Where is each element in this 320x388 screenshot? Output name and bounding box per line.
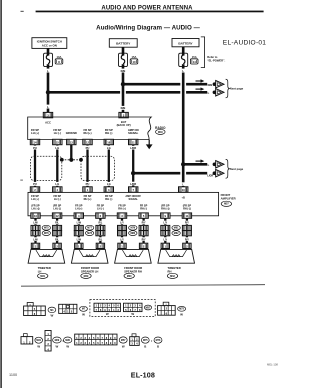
svg-text:B: B bbox=[144, 345, 146, 349]
svg-text:M57: M57 bbox=[224, 203, 229, 206]
svg-text:R/Y: R/Y bbox=[185, 238, 189, 241]
svg-text:(BACK UP): (BACK UP) bbox=[117, 123, 131, 127]
svg-text:L/OR: L/OR bbox=[207, 174, 213, 177]
svg-text:LG: LG bbox=[107, 146, 111, 150]
svg-text:L/OR: L/OR bbox=[130, 183, 136, 186]
svg-text:PU: PU bbox=[33, 146, 37, 150]
svg-text:AMPLIFIER: AMPLIFIER bbox=[221, 197, 236, 201]
svg-text:M82: M82 bbox=[174, 232, 179, 235]
svg-text:M77: M77 bbox=[87, 227, 92, 230]
svg-text:BAT: BAT bbox=[121, 120, 127, 124]
svg-text:RH (-): RH (-) bbox=[140, 208, 147, 211]
svg-text:L/W: L/W bbox=[77, 238, 82, 241]
svg-text:ACC or ON: ACC or ON bbox=[42, 43, 57, 47]
svg-text:RH (+): RH (+) bbox=[118, 208, 126, 211]
svg-text:BATTERY: BATTERY bbox=[116, 42, 131, 46]
svg-text:W: W bbox=[66, 345, 69, 349]
svg-text:R/B: R/B bbox=[208, 83, 213, 87]
svg-text:L/W: L/W bbox=[33, 238, 38, 241]
svg-text:L/Y: L/Y bbox=[163, 222, 167, 225]
svg-text:1100: 1100 bbox=[9, 373, 17, 377]
svg-text:LH (+): LH (+) bbox=[75, 208, 82, 211]
svg-text:11: 11 bbox=[185, 214, 188, 218]
svg-text:EL-108: EL-108 bbox=[131, 370, 155, 379]
svg-text:M30: M30 bbox=[65, 339, 70, 342]
svg-text:PU: PU bbox=[33, 182, 37, 186]
svg-text:L/W: L/W bbox=[77, 222, 82, 225]
svg-text:RH (+): RH (+) bbox=[84, 197, 92, 201]
svg-text:RH (+): RH (+) bbox=[84, 131, 92, 135]
svg-text:W: W bbox=[131, 312, 134, 316]
svg-text:RH (-)): RH (-)) bbox=[183, 208, 191, 211]
svg-text:M81: M81 bbox=[174, 227, 179, 230]
svg-text:LH (-): LH (-) bbox=[54, 197, 61, 201]
svg-text:EL-AUDIO-01: EL-AUDIO-01 bbox=[223, 40, 267, 47]
svg-text:M75: M75 bbox=[179, 308, 184, 311]
svg-text:W: W bbox=[122, 345, 125, 349]
svg-text:B: B bbox=[157, 345, 159, 349]
svg-text:M75: M75 bbox=[143, 339, 148, 342]
svg-text:R/Y: R/Y bbox=[142, 222, 146, 225]
svg-text:M76: M76 bbox=[44, 232, 49, 235]
svg-text:M29: M29 bbox=[84, 275, 89, 278]
svg-text:ACC: ACC bbox=[45, 121, 51, 125]
svg-text:R/B: R/B bbox=[121, 69, 126, 73]
svg-text:M57: M57 bbox=[146, 306, 151, 309]
svg-text:LH (-): LH (-) bbox=[54, 131, 61, 135]
svg-text:15A: 15A bbox=[132, 55, 137, 59]
svg-text:W: W bbox=[106, 312, 109, 316]
svg-text:L/W: L/W bbox=[33, 222, 38, 225]
svg-text:10: 10 bbox=[34, 214, 37, 218]
svg-text:15A: 15A bbox=[192, 55, 197, 59]
svg-text:LG: LG bbox=[55, 182, 59, 186]
svg-text:RH (-): RH (-) bbox=[105, 131, 112, 135]
svg-text:M57: M57 bbox=[121, 339, 126, 342]
svg-text:SPEAKER LH: SPEAKER LH bbox=[81, 269, 98, 273]
svg-text:RH (+)): RH (+)) bbox=[161, 208, 169, 211]
svg-text:LH (-)): LH (-)) bbox=[53, 208, 61, 211]
svg-text:M30: M30 bbox=[127, 275, 132, 278]
svg-text:14: 14 bbox=[193, 60, 196, 64]
svg-text:10A: 10A bbox=[57, 55, 62, 59]
svg-text:M43: M43 bbox=[158, 131, 163, 134]
svg-text:M75: M75 bbox=[44, 227, 49, 230]
svg-text:16: 16 bbox=[107, 141, 110, 145]
svg-text:LH (+): LH (+) bbox=[31, 131, 39, 135]
svg-text:LH (-): LH (-) bbox=[97, 208, 104, 211]
svg-text:L/Y: L/Y bbox=[120, 238, 124, 241]
svg-text:14: 14 bbox=[34, 141, 37, 145]
svg-text:13: 13 bbox=[70, 141, 73, 145]
svg-text:15: 15 bbox=[56, 141, 59, 145]
svg-text:RH: RH bbox=[168, 269, 172, 273]
svg-text:GROUND: GROUND bbox=[66, 132, 77, 135]
svg-text:11: 11 bbox=[132, 141, 135, 145]
svg-text:Refer to: Refer to bbox=[207, 55, 218, 59]
svg-text:12: 12 bbox=[86, 141, 89, 145]
svg-text:12: 12 bbox=[56, 214, 59, 218]
svg-text:Next page: Next page bbox=[230, 167, 244, 171]
svg-text:R/Y: R/Y bbox=[185, 222, 189, 225]
svg-text:“EL-POWER”.: “EL-POWER”. bbox=[207, 58, 225, 62]
svg-text:W: W bbox=[180, 312, 183, 316]
svg-text:LH (+)): LH (+)) bbox=[32, 208, 40, 211]
svg-text:+B: +B bbox=[182, 195, 186, 199]
svg-text:M76: M76 bbox=[156, 339, 161, 342]
svg-text:SIGNAL: SIGNAL bbox=[128, 131, 139, 135]
svg-text:L/Y: L/Y bbox=[163, 238, 167, 241]
svg-text:SPEAKER RH: SPEAKER RH bbox=[124, 269, 142, 273]
svg-text:M31: M31 bbox=[40, 275, 45, 278]
svg-text:M31: M31 bbox=[36, 339, 41, 342]
svg-text:10: 10 bbox=[133, 60, 136, 64]
svg-text:BATTERY: BATTERY bbox=[178, 41, 193, 45]
svg-text:LH: LH bbox=[38, 269, 42, 273]
svg-text:R/L: R/L bbox=[98, 238, 102, 241]
svg-text:PU: PU bbox=[86, 182, 90, 186]
svg-text:R/B: R/B bbox=[121, 106, 126, 110]
svg-text:PU: PU bbox=[86, 146, 90, 150]
svg-text:Next page: Next page bbox=[230, 87, 244, 91]
svg-text:M80: M80 bbox=[130, 232, 135, 235]
svg-text:13: 13 bbox=[182, 188, 185, 192]
svg-text:L/Y: L/Y bbox=[120, 222, 124, 225]
svg-text:W: W bbox=[56, 345, 59, 349]
svg-text:RH (-): RH (-) bbox=[105, 197, 112, 201]
svg-text:L/OR: L/OR bbox=[130, 147, 136, 150]
svg-text:M78: M78 bbox=[87, 232, 92, 235]
svg-text:M32: M32 bbox=[170, 275, 175, 278]
svg-text:Audio/Wiring Diagram — AUDIO —: Audio/Wiring Diagram — AUDIO — bbox=[96, 25, 200, 32]
svg-text:8: 8 bbox=[30, 305, 31, 307]
svg-text:R/Y: R/Y bbox=[142, 238, 146, 241]
svg-text:LH (+): LH (+) bbox=[31, 197, 39, 201]
svg-text:W: W bbox=[82, 312, 85, 316]
svg-text:M79: M79 bbox=[130, 227, 135, 230]
svg-text:LG: LG bbox=[55, 146, 59, 150]
svg-text:AUDIO AND POWER ANTENNA: AUDIO AND POWER ANTENNA bbox=[101, 5, 193, 11]
svg-text:3: 3 bbox=[165, 304, 166, 306]
svg-text:R/L: R/L bbox=[55, 238, 59, 241]
svg-text:LG: LG bbox=[107, 182, 111, 186]
svg-text:MEL-108: MEL-108 bbox=[267, 362, 278, 366]
svg-text:W: W bbox=[37, 345, 40, 349]
svg-text:R/L: R/L bbox=[98, 222, 102, 225]
svg-text:M29: M29 bbox=[55, 339, 60, 342]
svg-text:SIGNAL: SIGNAL bbox=[128, 198, 138, 201]
svg-text:R/L: R/L bbox=[55, 222, 59, 225]
svg-text:W: W bbox=[50, 314, 53, 318]
